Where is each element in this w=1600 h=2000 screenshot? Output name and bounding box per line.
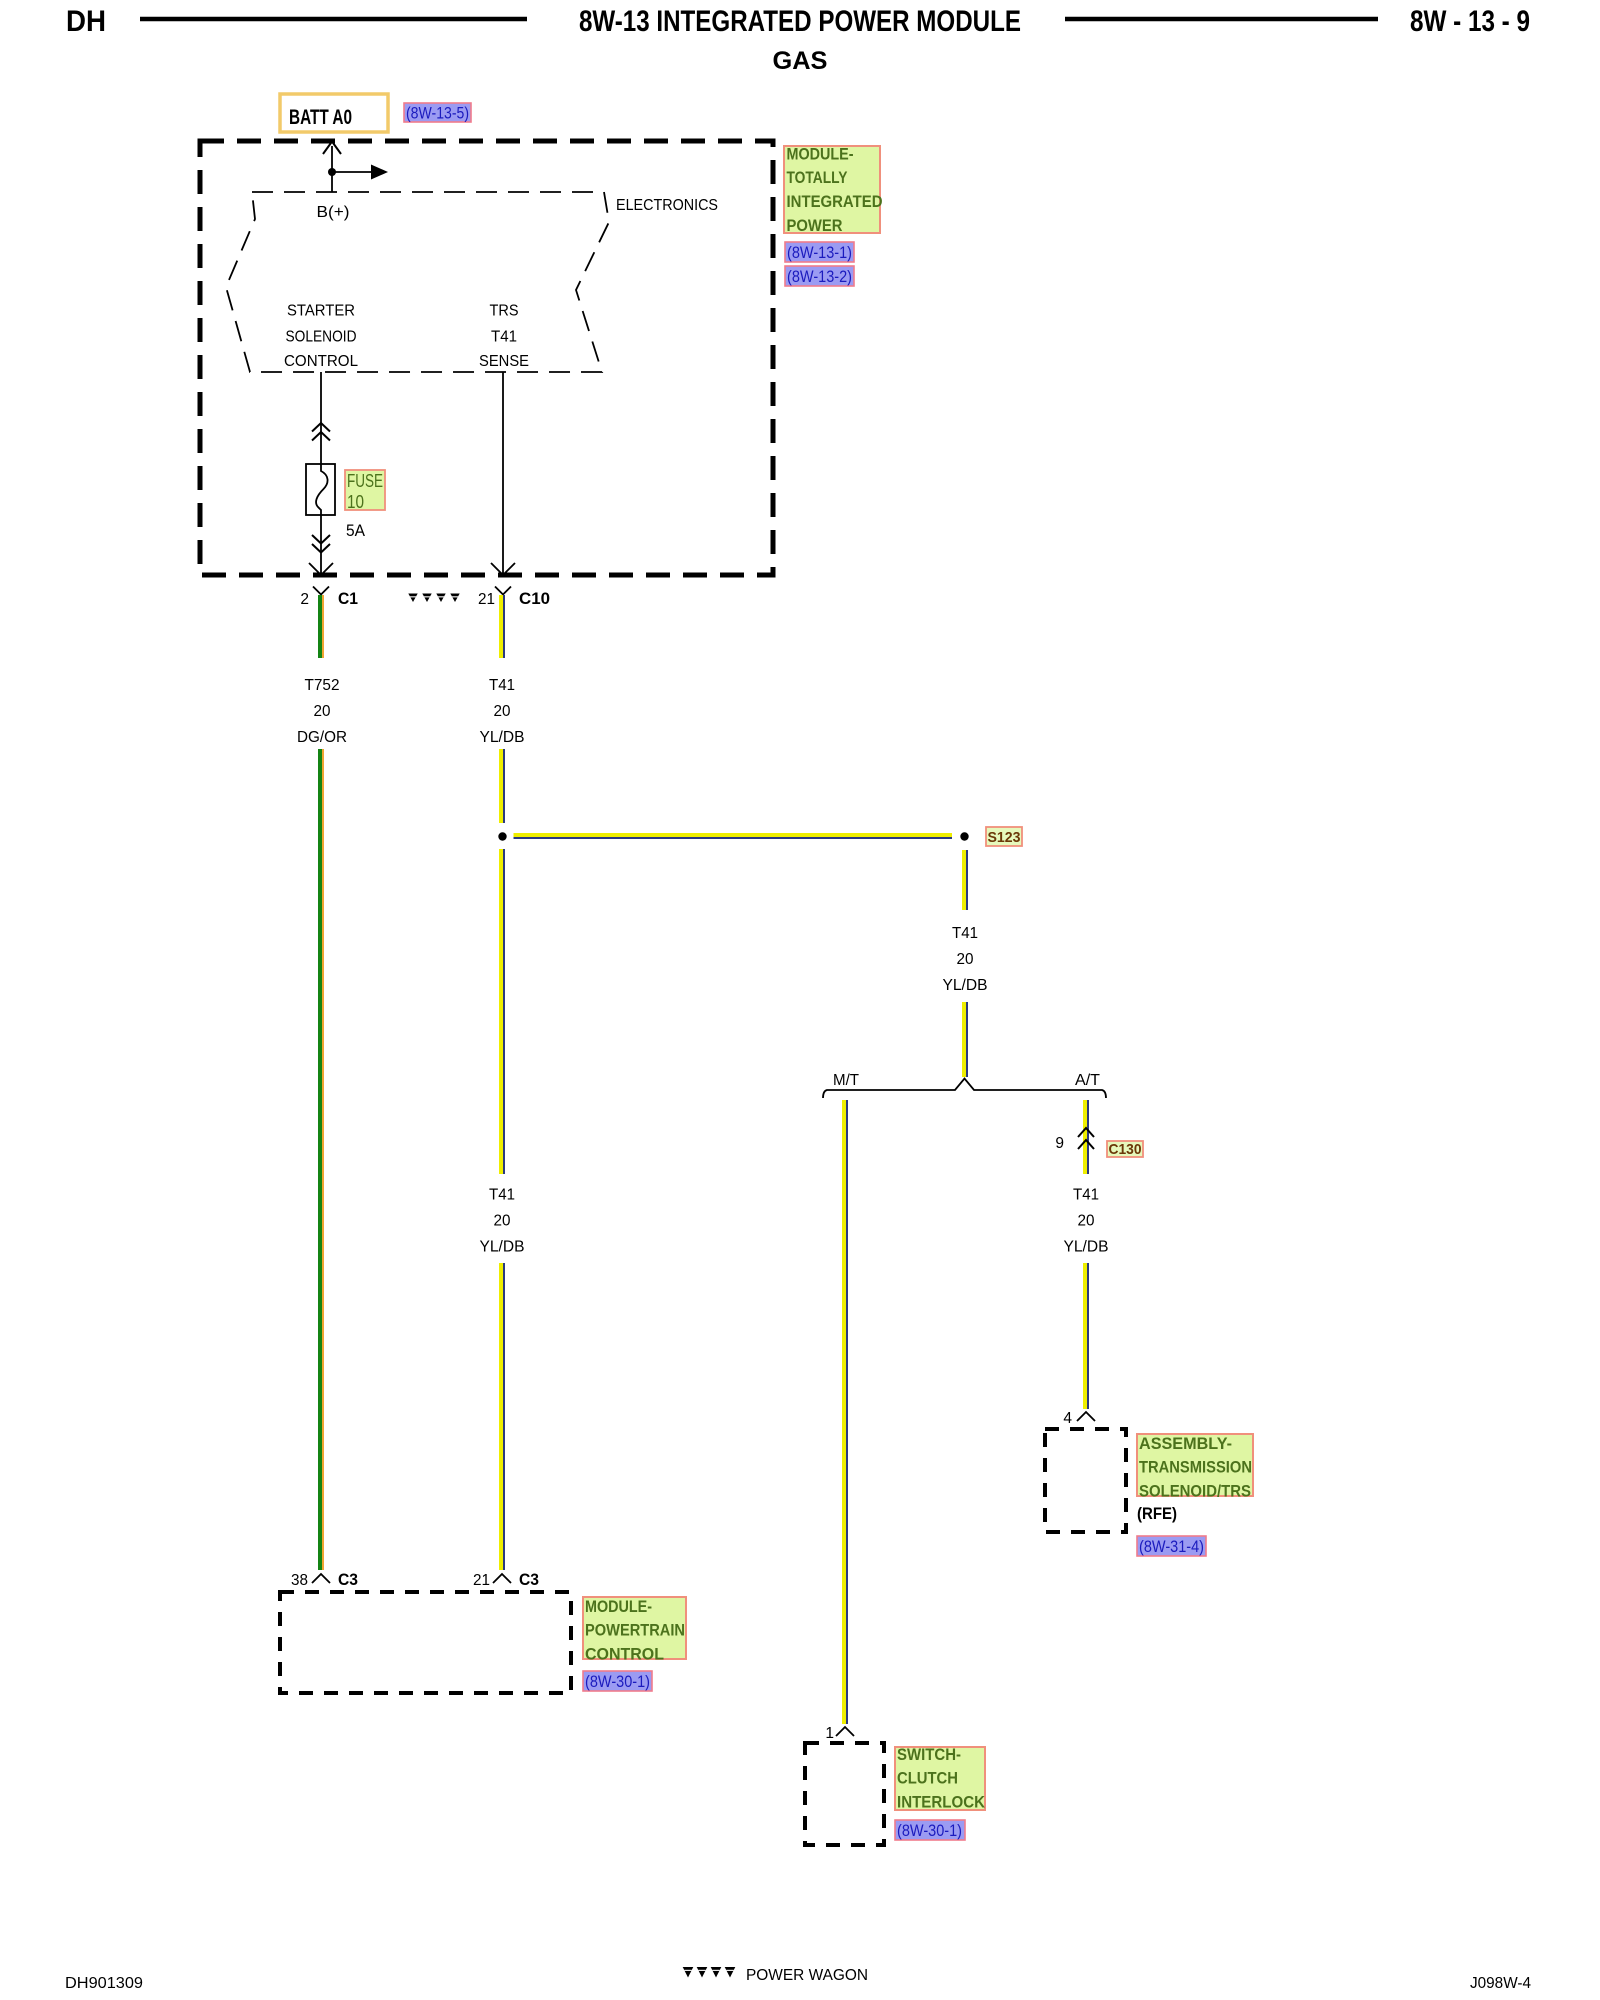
svg-text:20: 20 bbox=[314, 703, 331, 720]
svg-text:20: 20 bbox=[494, 1213, 511, 1230]
svg-text:GAS: GAS bbox=[773, 47, 828, 75]
arrowhead up at TIPM boundary bbox=[323, 142, 341, 155]
connector pin 4 (transmission solenoid assembly) bbox=[1077, 1412, 1095, 1421]
wire T41 20 YL/DB (S123 to split) segment 1 bbox=[962, 850, 966, 910]
page reference (8W-30-1) switch bbox=[895, 1820, 965, 1840]
svg-text:CLUTCH: CLUTCH bbox=[897, 1769, 958, 1788]
svg-text:S123: S123 bbox=[988, 829, 1021, 846]
wire starter solenoid control (internal, lower) bbox=[320, 515, 322, 575]
label SWITCH-CLUTCH INTERLOCK bbox=[895, 1747, 985, 1810]
svg-text:ASSEMBLY-: ASSEMBLY- bbox=[1139, 1434, 1232, 1453]
label MODULE-TOTALLY INTEGRATED POWER bbox=[784, 146, 880, 233]
page reference (8W-13-5) bbox=[404, 103, 471, 122]
svg-text:10: 10 bbox=[347, 492, 364, 512]
clutch interlock switch outline bbox=[805, 1743, 884, 1845]
svg-text:21: 21 bbox=[478, 591, 495, 608]
battery feed box BATT A0 bbox=[280, 94, 388, 132]
arrowhead down at TIPM boundary (TRS sense) bbox=[491, 563, 515, 575]
svg-text:SENSE: SENSE bbox=[479, 353, 529, 370]
module PCM outline bbox=[280, 1592, 571, 1693]
svg-text:M/T: M/T bbox=[833, 1072, 860, 1089]
splice S123 bus wire bbox=[514, 833, 953, 837]
header rule right bbox=[1065, 17, 1378, 22]
splice S123 junction dot right bbox=[960, 832, 968, 840]
label FUSE 10 bbox=[345, 470, 385, 510]
electronics block outline bbox=[226, 192, 609, 372]
connector C130 pin 9 chevrons bbox=[1078, 1128, 1094, 1137]
splice S123 junction dot left bbox=[498, 832, 506, 840]
svg-text:T41: T41 bbox=[952, 925, 978, 942]
node B(+) junction dot bbox=[328, 168, 336, 176]
svg-text:8W-13 INTEGRATED POWER MODULE: 8W-13 INTEGRATED POWER MODULE bbox=[579, 5, 1021, 38]
svg-text:2: 2 bbox=[300, 591, 309, 608]
in-line connector chevrons above fuse bbox=[312, 423, 330, 432]
in-line connector chevrons below fuse bbox=[312, 535, 330, 544]
svg-text:8W - 13 - 9: 8W - 13 - 9 bbox=[1410, 5, 1530, 38]
svg-text:SOLENOID/TRS: SOLENOID/TRS bbox=[1139, 1481, 1251, 1500]
off-page feed arrowhead bbox=[371, 165, 388, 180]
header rule left bbox=[140, 17, 527, 22]
svg-text:B(+): B(+) bbox=[317, 204, 350, 221]
svg-text:SOLENOID: SOLENOID bbox=[286, 329, 357, 346]
wire battery feed into TIPM bbox=[331, 146, 333, 192]
svg-text:T41: T41 bbox=[491, 329, 517, 346]
svg-text:YL/DB: YL/DB bbox=[480, 729, 525, 746]
svg-text:C1: C1 bbox=[338, 589, 358, 608]
wire T41 20 YL/DB (C10 branch) segment 4 bbox=[499, 1263, 503, 1570]
wire T752 20 DG/OR segment 1 bbox=[318, 595, 322, 658]
svg-text:TRS: TRS bbox=[490, 303, 519, 320]
svg-text:(8W-31-4): (8W-31-4) bbox=[1139, 1537, 1204, 1556]
svg-text:DG/OR: DG/OR bbox=[297, 729, 347, 746]
wire T41 A/T branch segment 1 bbox=[1083, 1100, 1087, 1174]
M/T A/T split brace bbox=[823, 1079, 1106, 1099]
transmission solenoid assembly outline bbox=[1045, 1429, 1126, 1532]
svg-text:4: 4 bbox=[1063, 1410, 1072, 1427]
svg-text:CONTROL: CONTROL bbox=[284, 353, 358, 370]
page reference (8W-30-1) PCM bbox=[583, 1671, 652, 1691]
page reference (8W-13-1) bbox=[785, 242, 854, 262]
svg-text:C3: C3 bbox=[338, 1570, 358, 1589]
wire T41 20 YL/DB (C10 branch) segment 3 bbox=[499, 849, 503, 1174]
wire T41 20 YL/DB (S123 to split) segment 2 bbox=[962, 1002, 966, 1077]
wire T41 20 YL/DB (C10 branch) segment 2 bbox=[499, 749, 503, 823]
svg-text:CONTROL: CONTROL bbox=[585, 1644, 664, 1663]
page reference (8W-31-4) bbox=[1137, 1536, 1206, 1556]
svg-text:J098W-4: J098W-4 bbox=[1470, 1975, 1531, 1992]
connector C10 pin 21 bbox=[495, 587, 511, 595]
wire T41 A/T branch segment 2 bbox=[1083, 1263, 1087, 1409]
off-page feed branch wire bbox=[332, 171, 371, 173]
svg-text:DH901309: DH901309 bbox=[65, 1975, 143, 1992]
svg-text:TOTALLY: TOTALLY bbox=[787, 168, 849, 187]
svg-text:20: 20 bbox=[494, 703, 511, 720]
wire T41 20 YL/DB (C10 branch) segment 1 bbox=[499, 595, 503, 658]
svg-text:ELECTRONICS: ELECTRONICS bbox=[616, 197, 718, 214]
svg-text:T41: T41 bbox=[489, 1187, 515, 1204]
svg-text:A/T: A/T bbox=[1075, 1072, 1101, 1089]
svg-text:POWER: POWER bbox=[787, 216, 843, 235]
arrowhead down at TIPM boundary (starter solenoid) bbox=[309, 563, 333, 575]
svg-text:T752: T752 bbox=[305, 677, 340, 694]
wire T752 20 DG/OR segment 2 bbox=[318, 749, 322, 1570]
svg-text:MODULE-: MODULE- bbox=[585, 1597, 652, 1616]
svg-text:T41: T41 bbox=[1073, 1187, 1099, 1204]
svg-text:(8W-30-1): (8W-30-1) bbox=[585, 1672, 650, 1691]
connector C3 pin 21 bbox=[493, 1574, 511, 1583]
wire TRS sense (internal) bbox=[502, 372, 504, 575]
svg-text:(8W-13-5): (8W-13-5) bbox=[406, 104, 469, 123]
svg-text:POWER WAGON: POWER WAGON bbox=[746, 1967, 868, 1984]
connector pin 1 (clutch interlock switch) bbox=[836, 1727, 854, 1736]
page reference (8W-13-2) bbox=[785, 266, 854, 286]
connector C3 pin 38 bbox=[312, 1574, 330, 1583]
svg-text:C130: C130 bbox=[1109, 1141, 1142, 1158]
svg-text:(8W-13-1): (8W-13-1) bbox=[787, 243, 852, 262]
svg-text:C3: C3 bbox=[519, 1570, 539, 1589]
svg-text:BATT A0: BATT A0 bbox=[289, 106, 352, 129]
svg-text:20: 20 bbox=[1078, 1213, 1095, 1230]
splice label S123 bbox=[986, 827, 1022, 846]
svg-text:INTEGRATED: INTEGRATED bbox=[787, 192, 883, 211]
svg-text:YL/DB: YL/DB bbox=[943, 977, 988, 994]
svg-text:MODULE-: MODULE- bbox=[787, 145, 854, 164]
svg-text:YL/DB: YL/DB bbox=[480, 1239, 525, 1256]
footer continuation triangles bbox=[683, 1967, 694, 1978]
svg-text:T41: T41 bbox=[489, 677, 515, 694]
svg-text:(8W-13-2): (8W-13-2) bbox=[787, 267, 852, 286]
svg-text:(RFE): (RFE) bbox=[1137, 1504, 1177, 1523]
connector C1 pin 2 bbox=[313, 587, 329, 595]
wire T41 M/T branch bbox=[842, 1100, 846, 1724]
svg-text:38: 38 bbox=[291, 1572, 308, 1589]
svg-text:C10: C10 bbox=[519, 589, 550, 608]
svg-text:20: 20 bbox=[957, 951, 974, 968]
svg-text:(8W-30-1): (8W-30-1) bbox=[897, 1821, 962, 1840]
svg-text:5A: 5A bbox=[346, 521, 366, 540]
label ASSEMBLY-TRANSMISSION SOLENOID/TRS bbox=[1137, 1434, 1253, 1496]
fuse F10 element bbox=[316, 464, 328, 515]
svg-text:POWERTRAIN: POWERTRAIN bbox=[585, 1621, 685, 1640]
svg-text:YL/DB: YL/DB bbox=[1064, 1239, 1109, 1256]
svg-text:STARTER: STARTER bbox=[287, 303, 355, 320]
module TIPM outline (Totally Integrated Power Module) bbox=[200, 141, 773, 575]
svg-text:TRANSMISSION: TRANSMISSION bbox=[1139, 1458, 1252, 1477]
connector label C130 bbox=[1107, 1141, 1143, 1157]
wire starter solenoid control (internal, upper) bbox=[320, 372, 322, 464]
label MODULE-POWERTRAIN CONTROL bbox=[583, 1597, 686, 1659]
continuation triangles bbox=[408, 594, 417, 603]
svg-text:9: 9 bbox=[1055, 1135, 1064, 1152]
svg-text:1: 1 bbox=[825, 1725, 834, 1742]
svg-text:SWITCH-: SWITCH- bbox=[897, 1745, 961, 1764]
svg-text:21: 21 bbox=[473, 1572, 490, 1589]
svg-text:DH: DH bbox=[66, 5, 106, 38]
fuse F10 outline bbox=[306, 464, 335, 515]
svg-text:INTERLOCK: INTERLOCK bbox=[897, 1792, 986, 1811]
svg-text:FUSE: FUSE bbox=[347, 471, 383, 491]
